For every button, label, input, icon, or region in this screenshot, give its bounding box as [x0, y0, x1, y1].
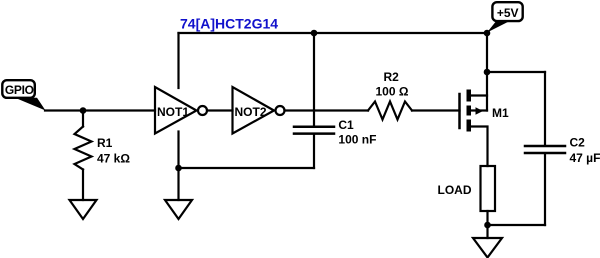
svg-text:47 µF: 47 µF: [570, 151, 600, 165]
svg-text:+5V: +5V: [497, 6, 519, 20]
svg-text:M1: M1: [492, 106, 509, 120]
wire: R2 right to M1 gate: [412, 109, 460, 111]
NOT2 output inversion bubble: [276, 106, 285, 115]
transistor M1 channel bar (drain, top): [467, 90, 472, 102]
wire: C1 top stem from +5V rail down to C1 (crosses signal, no connection): [313, 33, 315, 126]
svg-text:47 kΩ: 47 kΩ: [97, 152, 130, 166]
transistor M1 channel bar (body, middle): [467, 106, 472, 116]
wire: R1 bottom to ground: [82, 170, 84, 201]
transistor M1 (PMOS) gate plate: [458, 94, 461, 128]
ground symbol under NOT1: [165, 200, 192, 219]
svg-text:LOAD: LOAD: [438, 183, 472, 197]
flag: +5V net label box: [492, 2, 522, 21]
flag: GPIO net label box: [2, 80, 35, 98]
junction: +5V vertical / C2 branch: [484, 69, 491, 76]
transistor M1 channel bar (source, bottom): [467, 120, 472, 132]
arrow: M1 body arrow (points right, PMOS): [476, 107, 484, 114]
resistor LOAD (rectangular body): [481, 166, 496, 211]
svg-text:NOT1: NOT1: [157, 105, 189, 119]
wire: GPIO flag tip to NOT1 input (net GPIO): [45, 109, 155, 111]
capacitor C1 top plate: [294, 126, 334, 129]
wire: +5V top rail: [179, 32, 488, 34]
op-amp: NOT1 inverter triangle: [155, 87, 197, 134]
svg-text:100 Ω: 100 Ω: [376, 85, 409, 99]
wire: node down to R1 top: [82, 111, 84, 127]
junction: ground rail / NOT1 GND / ground symbol: [175, 165, 182, 172]
wire: NOT2 output to R2 left: [285, 109, 369, 111]
capacitor C2 top plate: [525, 145, 565, 148]
svg-text:R2: R2: [384, 70, 400, 84]
svg-text:NOT2: NOT2: [235, 105, 267, 119]
NOT1 output inversion bubble: [198, 106, 207, 115]
op-amp: NOT2 inverter triangle: [233, 87, 275, 134]
ground symbol under LOAD: [473, 238, 502, 258]
svg-text:R1: R1: [97, 136, 113, 150]
wire: +5V vertical feed (rail to M1 top/body): [486, 33, 488, 111]
wire: C2 top stem: [544, 72, 546, 145]
wire: C2 bottom stem: [544, 154, 546, 225]
svg-text:GPIO: GPIO: [5, 83, 34, 97]
resistor R2 (100 Ohm gate resistor) zigzag body: [368, 102, 412, 120]
wire: LOAD bottom to ground: [486, 211, 488, 238]
junction: GPIO / R1 node: [80, 107, 87, 114]
flag: +5V net label pointer: [487, 21, 511, 33]
svg-text:100 nF: 100 nF: [338, 133, 376, 147]
svg-text:C1: C1: [338, 118, 354, 132]
junction: LOAD / C2 ground node: [484, 222, 491, 229]
junction: top rail / +5V flag / MOSFET branch: [484, 30, 491, 37]
svg-text:74[A]HCT2G14: 74[A]HCT2G14: [180, 16, 278, 32]
svg-text:C2: C2: [570, 136, 586, 150]
wire: ground rail from NOT1 GND pin to C1: [179, 167, 315, 169]
wire: C2 bottom to ground node: [488, 224, 546, 226]
resistor R1 (47 kOhm pulldown) zigzag body: [75, 127, 92, 170]
pin: NOT1 GND pin down to ground rail: [177, 132, 179, 169]
junction: top rail / C1 branch: [311, 30, 318, 37]
capacitor C2 bottom plate: [525, 152, 565, 155]
wire: C1 bottom stem down to ground rail: [313, 135, 315, 168]
flag: GPIO net label pointer: [15, 98, 46, 111]
wire: M1 body terminal: [471, 109, 488, 111]
pin: NOT1 VCC pin up to +5V rail: [177, 33, 179, 88]
wire: NOT1 output to NOT2 input: [207, 109, 233, 111]
wire: M1 top terminal to +5V vertical: [471, 94, 488, 96]
capacitor C1 bottom plate: [294, 132, 334, 135]
wire: M1 bottom terminal to LOAD: [471, 127, 488, 167]
ground symbol under R1: [70, 200, 97, 219]
wire: +5V node to C2 top: [487, 71, 545, 73]
wire: junction down to ground symbol: [177, 168, 179, 200]
